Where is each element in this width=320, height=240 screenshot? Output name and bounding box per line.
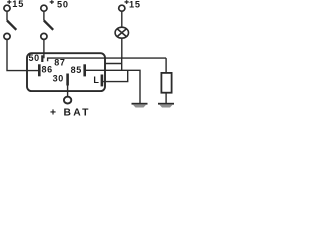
terminal circle switch S2 bottom [41,33,47,39]
wire 85 to ground [86,70,140,103]
terminal circle lamp supply [119,5,125,11]
contact bar 87 [48,58,167,61]
resistor R1 [161,73,171,93]
switch S2 lever (open) [44,21,53,30]
switch S1 lever (open) [7,21,16,30]
pin 30 contact post [66,74,69,86]
terminal 15 supply plus symbol [7,0,11,4]
svg-text:86: 86 [42,65,53,75]
wire 30 to battery terminal [67,86,69,97]
svg-text:L: L [93,75,99,85]
wire stub relay to lamp branch [105,58,122,70]
ground symbol (right) [158,104,174,108]
svg-text:+ BAT: + BAT [50,108,91,119]
wire supply to lamp [121,12,123,28]
terminal 15 supply (right) plus symbol [125,0,129,4]
svg-text:87: 87 [54,58,65,68]
svg-text:15: 15 [129,0,141,9]
wire lamp to 87 line [121,38,123,58]
wire S1 to relay terminal 86 [7,40,38,71]
battery terminal circle [64,97,71,104]
pin 86 contact post [38,64,41,76]
terminal circle switch S1 bottom [4,33,10,39]
svg-text:85: 85 [71,65,82,75]
wire stub S2 [43,12,45,21]
wire S2 to relay terminal 50 [43,40,45,59]
terminal circle switch S2 top [41,5,47,11]
pin 50 contact post [41,55,43,62]
relay K1 housing [27,53,105,91]
svg-text:50: 50 [57,0,69,9]
terminal 50 supply plus symbol [50,0,54,4]
pin 85 contact post [83,64,86,76]
svg-text:30: 30 [53,74,64,84]
wire resistor to ground [165,93,167,104]
wire stub S1 [6,12,8,21]
indicator lamp H1 [115,27,128,38]
ground symbol (left) [132,104,148,108]
svg-text:50: 50 [29,53,40,63]
wire 87 to resistor [165,58,167,73]
terminal circle switch S1 top [4,5,10,11]
wire L joining ground wire [103,70,128,81]
pin L contact post [101,75,104,87]
svg-text:15: 15 [12,0,24,9]
